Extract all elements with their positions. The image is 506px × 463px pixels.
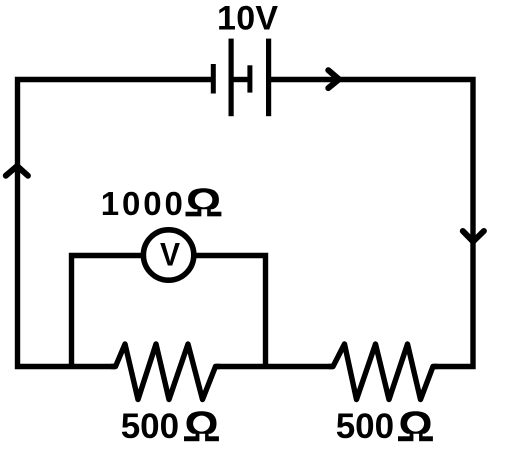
svg-text:V: V — [160, 237, 180, 273]
svg-text:1000: 1000 — [101, 185, 186, 222]
svg-text:500: 500 — [336, 407, 394, 446]
svg-text:10V: 10V — [217, 0, 278, 38]
svg-text:500: 500 — [121, 407, 179, 446]
